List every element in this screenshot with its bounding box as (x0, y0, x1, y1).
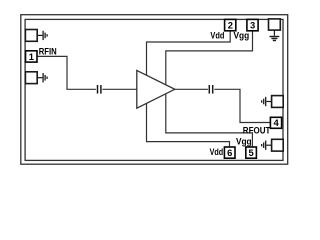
svg-text:RFIN: RFIN (39, 45, 57, 56)
svg-text:6: 6 (227, 147, 232, 158)
svg-text:Vdd: Vdd (210, 30, 224, 41)
svg-text:4: 4 (273, 117, 279, 128)
svg-text:2: 2 (228, 20, 233, 31)
svg-text:Vdd: Vdd (210, 146, 224, 157)
svg-text:Vgg: Vgg (234, 30, 250, 41)
svg-text:RFOUT: RFOUT (243, 124, 271, 135)
svg-text:Vgg: Vgg (236, 136, 252, 147)
svg-text:1: 1 (29, 51, 34, 62)
svg-text:3: 3 (250, 20, 255, 31)
svg-text:5: 5 (248, 147, 253, 158)
